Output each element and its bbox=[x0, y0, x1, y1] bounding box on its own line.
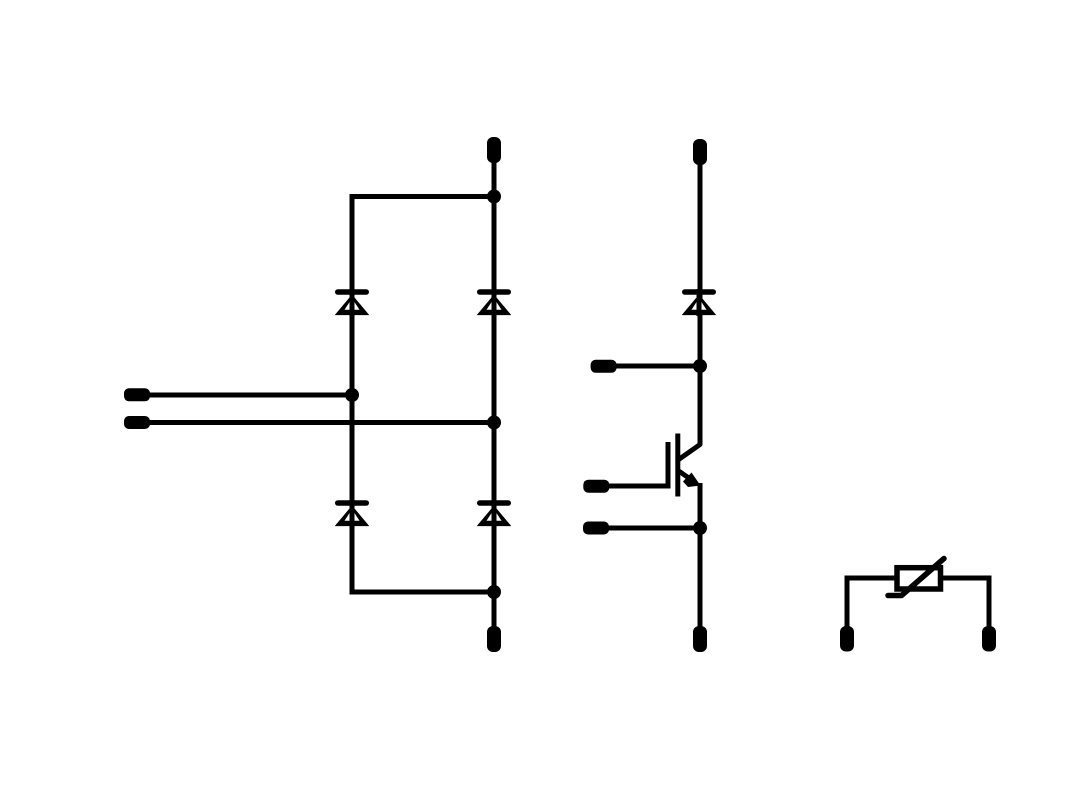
terminal AC2 (lower input pin) bbox=[124, 416, 150, 429]
wire thermistor right lead bbox=[943, 578, 989, 627]
node emitter aux junction bbox=[693, 521, 707, 535]
node top rail junction bbox=[487, 190, 501, 204]
wire AC1 lead bbox=[148, 393, 352, 398]
transistor Q1 body bar bbox=[675, 434, 680, 497]
node AC2 junction on right branch bbox=[487, 416, 501, 430]
wire AC2 lead bbox=[148, 420, 494, 425]
diode D2 (bridge upper-right) bbox=[477, 289, 512, 316]
transistor Q1 collector diagonal bbox=[678, 445, 700, 461]
terminal DC- (bridge bottom pin) bbox=[487, 626, 501, 652]
wire emitter aux lead bbox=[608, 526, 700, 531]
node bottom rail junction bbox=[487, 585, 501, 599]
terminal collector aux pin bbox=[591, 360, 617, 373]
terminal AC1 (upper input pin) bbox=[124, 388, 150, 401]
transistor Q1 gate bar bbox=[666, 442, 671, 489]
terminal gate pin bbox=[583, 480, 609, 493]
terminal thermistor left pin bbox=[840, 626, 854, 652]
wire thermistor left lead bbox=[847, 578, 895, 627]
terminal thermistor right pin bbox=[982, 626, 996, 652]
node collector aux junction bbox=[693, 359, 707, 373]
diode D4 (bridge lower-right) bbox=[477, 500, 512, 527]
terminal DC+ (bridge top pin) bbox=[487, 137, 501, 163]
wire collector aux lead bbox=[615, 364, 700, 369]
wire emitter vertical bbox=[698, 483, 703, 628]
terminal emitter bottom pin bbox=[693, 626, 707, 652]
wire chopper upper vertical (through diode to collector) bbox=[698, 163, 703, 445]
transistor Q1 emitter diagonal bbox=[678, 471, 691, 480]
diode D1 (bridge upper-left) bbox=[335, 289, 370, 316]
thermistor RT1 body bbox=[897, 568, 941, 589]
terminal emitter aux pin bbox=[583, 522, 609, 535]
wire bridge right branch vertical bbox=[492, 160, 497, 629]
thermistor RT1 strike line bbox=[888, 559, 944, 596]
node AC1 junction on left branch bbox=[345, 388, 359, 402]
wire gate lead bbox=[608, 484, 670, 489]
terminal chopper collector top pin bbox=[693, 139, 707, 165]
transistor Q1 emitter arrow bbox=[683, 473, 701, 488]
wire bridge left loop (top rail, left branch, bottom rail) bbox=[352, 197, 494, 593]
diode D5 (chopper freewheel) bbox=[682, 289, 717, 316]
diode D3 (bridge lower-left) bbox=[335, 500, 370, 527]
